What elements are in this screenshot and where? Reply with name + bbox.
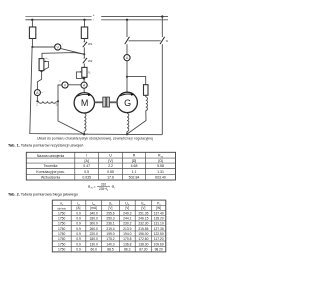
svg-text:[mA]: [mA] [90,206,97,210]
svg-text:C: C [36,103,38,106]
switch W1 [83,42,93,47]
wire V2 left to node D [58,85,62,101]
svg-text:131.10: 131.10 [154,222,164,226]
rheostat Rr [76,67,91,78]
svg-text:[V]: [V] [125,206,129,210]
svg-text:0.9: 0.9 [76,248,81,252]
svg-text:Tab. 1. Tabela pomiarów rezyst: Tab. 1. Tabela pomiarów rezystancji uzwo… [8,144,83,148]
ammeter Awz [124,55,130,61]
svg-text:260.0: 260.0 [90,227,98,231]
svg-text:1.1: 1.1 [132,170,137,174]
wire right bus lower line [101,19,168,21]
svg-text:1: 1 [62,44,63,46]
wire bus to R1 [31,20,33,27]
node A junction [31,46,33,48]
svg-text:196.00: 196.00 [138,232,148,236]
node D [57,100,59,102]
wire coil to bottom node [126,131,128,134]
wire W1 to node B [83,48,85,55]
svg-text:1750: 1750 [58,237,66,241]
table 2 grid [52,200,166,252]
svg-text:215.85: 215.85 [138,227,148,231]
svg-text:0.9: 0.9 [76,227,81,231]
wire W3 link bar [129,40,161,42]
svg-text:G: G [124,98,131,108]
svg-text:117.20: 117.20 [154,237,164,241]
node junction upper bus right [161,15,163,17]
svg-text:Komutacyjne pow.: Komutacyjne pow. [36,170,64,174]
svg-text:Wzbudzenia: Wzbudzenia [41,175,60,179]
svg-text:1750: 1750 [58,217,66,221]
voltmeter V2 [60,81,69,89]
wire generator shaft [109,101,117,103]
resistor R1 [29,27,35,39]
svg-text:60.0: 60.0 [90,248,97,252]
svg-text:246.15: 246.15 [138,217,148,221]
node E junction [126,76,128,78]
svg-text:[A]: [A] [77,206,81,210]
wire left return from node A to bottom [30,48,84,135]
svg-text:Twornika: Twornika [43,164,57,168]
wire M to series coil [83,112,85,115]
wire bus to switch W3 pole 1 [126,20,128,37]
svg-text:213.9: 213.9 [123,227,131,231]
svg-text:M: M [81,98,89,108]
svg-text:109.60: 109.60 [154,242,164,246]
svg-text:[Ω]: [Ω] [132,159,137,163]
wire C to ammeter Aw [36,96,38,102]
node junction below Rw [40,70,42,72]
svg-text:244.1: 244.1 [123,217,131,221]
svg-text:1750: 1750 [58,242,66,246]
svg-text:D: D [56,103,58,106]
node C [36,100,38,102]
generator G [117,92,137,112]
svg-text:[V]: [V] [109,206,113,210]
svg-text:1.31: 1.31 [157,170,164,174]
svg-text:310: 310 [101,182,107,186]
svg-text:250.3: 250.3 [106,217,114,221]
svg-text:0.5: 0.5 [84,170,89,174]
svg-text:135.20: 135.20 [154,217,164,221]
svg-text:1750: 1750 [58,232,66,236]
coupling sleeve half 2 [107,97,110,107]
svg-text:1750: 1750 [58,211,66,215]
svg-text:232.30: 232.30 [138,222,148,226]
wire right bus upper line [101,16,168,18]
svg-text:0.47: 0.47 [83,164,90,168]
svg-text:140.3: 140.3 [106,242,114,246]
wire left DC bus upper line [25,16,91,18]
ammeter At [81,82,90,88]
svg-text:86.3: 86.3 [124,248,131,252]
inductor generator field winding [146,97,148,111]
svg-text:0.9: 0.9 [76,222,81,226]
svg-text:1750: 1750 [58,248,66,252]
switch W3 pole 1 [125,37,130,44]
wire coil to bottom node [83,131,85,134]
svg-text:R75 =: R75 = [88,185,96,190]
wire motor shaft [95,101,103,103]
svg-text:1750: 1750 [58,222,66,226]
svg-text:W1: W1 [88,42,93,46]
wire W3 pole 2 to bottom [161,44,163,135]
table 1 grid [26,152,175,180]
svg-text:175.2: 175.2 [106,237,114,241]
svg-text:[V]: [V] [141,206,145,210]
svg-text:W2: W2 [88,59,93,63]
svg-text:300.0: 300.0 [90,222,98,226]
table 2 header text [57,201,161,210]
svg-text:122.50: 122.50 [154,232,164,236]
svg-text:137.40: 137.40 [154,211,164,215]
svg-text:0.55: 0.55 [107,170,114,174]
resistor R2 [81,27,87,39]
wire Aw up to rheostat Rw [37,71,41,89]
svg-text:[V]: [V] [108,159,112,163]
ammeter Aw [34,90,43,96]
wire Awz to node E [126,61,128,92]
wire node B to W2 [83,54,85,58]
svg-text:136.8: 136.8 [123,242,131,246]
rheostat Rw [39,58,49,71]
svg-text:255.6: 255.6 [106,211,114,215]
svg-text:138.30: 138.30 [138,242,148,246]
svg-text:5.58: 5.58 [157,164,164,168]
node B junction [83,53,85,55]
table 1 text [36,154,166,180]
svg-text:502.84: 502.84 [129,175,140,179]
wire left DC bus lower line [25,19,91,21]
voltmeter V1 [55,44,63,50]
svg-text:Nazwa uzwojenia: Nazwa uzwojenia [37,154,64,158]
svg-text:0.035: 0.035 [82,175,91,179]
wire At to motor M [83,88,85,92]
svg-text:Układ do pomiaru charakterysty: Układ do pomiaru charakterystyk obciążen… [37,137,153,141]
wire D branch to bottom node [58,101,84,134]
inductor shunt field winding C-D [38,101,56,103]
node junction lower bus generator field [126,19,128,21]
svg-text:0.9: 0.9 [76,237,81,241]
coupling sleeve half 1 [103,97,106,107]
motor M [74,93,94,113]
svg-text:98.20: 98.20 [155,248,163,252]
formula R75 [88,182,115,191]
node bottom junction G [126,133,128,135]
svg-text:88.5: 88.5 [107,248,114,252]
wire Rwz to coil [145,95,147,97]
wire node A to voltmeter V1 [32,46,54,48]
svg-text:249.3: 249.3 [123,211,131,215]
svg-text:2.2: 2.2 [108,164,113,168]
wire coil to bottom diagonal [127,111,146,134]
svg-text:170.8: 170.8 [123,237,131,241]
svg-text:603.40: 603.40 [155,175,166,179]
svg-text:4.68: 4.68 [131,164,138,168]
svg-text:251.35: 251.35 [138,211,148,215]
table 2 data text [58,211,164,251]
svg-text:Tab. 2. Tabela pomiarowa biegu: Tab. 2. Tabela pomiarowa biegu jałowego [8,193,78,197]
svg-text:[Ω]: [Ω] [158,159,163,163]
inductor generator series winding [127,113,129,131]
svg-text:130.0: 130.0 [90,242,98,246]
wire bus to switch W3 pole 2 [161,17,163,37]
svg-text:236.1: 236.1 [106,222,114,226]
svg-text:219.4: 219.4 [106,227,114,231]
svg-text:1750: 1750 [58,227,66,231]
node bottom junction M [83,133,85,135]
svg-text:87.20: 87.20 [139,248,147,252]
svg-text:I: I [86,154,87,158]
svg-text:[A]: [A] [85,159,89,163]
inductor motor series winding [84,114,86,132]
wire node E to regulator resistor [127,76,146,84]
wire R2 to switch W1 [83,39,85,43]
node junction below Rr [83,77,85,79]
wire bus to R2 [84,20,86,27]
node junction on lower bus at R1 [31,19,33,21]
svg-text:194.0: 194.0 [123,232,131,236]
svg-text:220.0: 220.0 [90,232,98,236]
wire V2 right to armature branch [68,84,81,86]
wire R1 to node A [31,39,33,47]
svg-text:[W]: [W] [156,206,161,210]
svg-text:172.60: 172.60 [138,237,148,241]
svg-text:230.2: 230.2 [123,222,131,226]
wire V1 to node B [61,49,84,55]
svg-text:obr/min: obr/min [57,206,66,210]
svg-text:17.6: 17.6 [107,175,114,179]
svg-text:0.9: 0.9 [76,211,81,215]
svg-text:0.9: 0.9 [76,217,81,221]
svg-text:180.0: 180.0 [90,237,98,241]
wire W2 to rheostat Rr [83,64,85,68]
switch W3 pole 2 [160,37,169,44]
svg-text:0.9: 0.9 [76,232,81,236]
resistor Rwz regulator [144,85,149,96]
wire W3 to ammeter Awz [126,44,128,54]
svg-text:127.35: 127.35 [154,227,164,231]
wire field tap from Rw top to node B [42,53,84,59]
svg-text:199.0: 199.0 [106,232,114,236]
wire bottom return to right [84,133,162,136]
svg-text:340.0: 340.0 [90,211,98,215]
wire Rr to ammeter At [83,79,85,83]
svg-text:330.0: 330.0 [90,217,98,221]
switch W2 [83,58,93,63]
node junction on lower bus at R2 [83,19,85,21]
svg-text:0.9: 0.9 [76,242,81,246]
